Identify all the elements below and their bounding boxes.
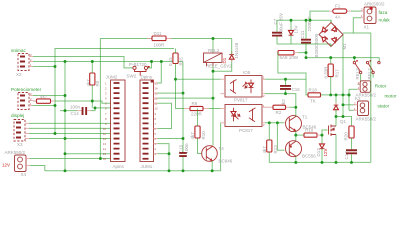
node rail R17 [329,56,332,59]
node R17 bottom [329,93,332,96]
node gate [321,134,324,137]
svg-text:R18: R18 [309,88,318,93]
wire T2 base feed [277,123,284,151]
svg-text:100n: 100n [184,143,189,154]
node R15 bottom [174,78,177,81]
header JUM1 Dpins [140,75,154,170]
svg-text:Apins: Apins [113,164,125,169]
svg-text:stator: stator [378,104,390,109]
node R5 bottom [91,100,94,103]
svg-text:JUM1: JUM1 [141,164,153,169]
wire pot pin1 [33,105,55,107]
node gnd jum2p15 [64,152,67,155]
transistor T1 BC546 [286,115,317,132]
connector X4 12V [2,150,30,177]
wire riser x175.5 to R9 [176,79,185,108]
wire relay node down to T4 [212,71,214,145]
wire R4 out to header [55,101,111,103]
wire displej pin3 [29,127,111,129]
node rail C11 [305,56,308,59]
node 6A8 out [305,51,308,54]
svg-text:12: 12 [103,137,106,141]
resistor R4 4k7 [33,94,55,103]
wire snimac pin3 to node [33,57,133,68]
svg-text:16: 16 [103,157,106,161]
svg-text:R10: R10 [201,131,206,140]
relay contact K1a [353,58,362,80]
svg-text:PV817: PV817 [234,98,248,103]
svg-text:4k7: 4k7 [190,132,195,140]
header JUM2 pin numbers [103,82,107,162]
svg-text:C15: C15 [179,144,184,153]
node gnd bus [64,169,67,172]
bridge rectifier B2 B250C5000 [314,23,347,58]
switch SW2 P-B1720 [127,62,150,79]
wire rotor p1 [349,88,358,90]
capacitor C11 [300,16,312,44]
node pin13 row [182,92,185,95]
node snimac1 [54,65,57,68]
svg-text:T1: T1 [302,115,308,120]
wire X4 pin1 to GND bus [30,166,45,171]
svg-text:4A: 4A [335,15,341,20]
resistor R18 [308,88,321,104]
wire gate to mosfet [322,130,328,135]
svg-text:D11: D11 [154,31,162,36]
wire D11 to relay node [171,38,232,40]
wire pot pin3 [33,95,65,97]
node gnd displej [64,137,67,140]
svg-text:BC556: BC556 [302,154,316,159]
wire emitters to R19 [296,134,304,136]
capacitor C17 snubber [344,149,357,162]
node diode top [335,93,338,96]
wire bridge AC right [343,32,353,34]
svg-text:C17: C17 [344,151,349,160]
svg-text:X1: X1 [364,25,370,30]
node R2 out [294,106,297,109]
wire bridge top stub [330,20,332,22]
wire bridge bottom [330,44,332,47]
resistor R16 6A8 10W [278,51,299,61]
svg-text:F1: F1 [335,4,341,9]
svg-text:SW2: SW2 [127,74,137,79]
node rail K1a [353,56,356,59]
wire opto feed y79 [176,78,221,80]
wire jum2 pin15 [65,153,111,155]
svg-text:13V: 13V [294,25,299,33]
node x349 row94.9 [348,93,351,96]
svg-text:4k7: 4k7 [40,94,48,99]
svg-text:BC846: BC846 [219,159,233,164]
svg-text:PC817: PC817 [239,128,253,133]
diode D1 1N4148 [222,39,239,64]
connector X? Potenciometer [11,87,42,110]
svg-text:REL2: REL2 [208,48,220,53]
node bus snubber [350,161,353,164]
wire R18 out row94.9 [321,94,350,96]
svg-text:220R: 220R [191,112,203,117]
node fuse drop [309,19,312,22]
svg-text:displej: displej [11,113,24,118]
wire X4 pin2 to JUM2 pin16 [30,158,111,160]
header JUM2 Apins [106,75,126,170]
wire JUM1 p13 riser [154,92,158,94]
node pot3 [64,94,67,97]
wire JUM1 p12 [154,97,158,99]
node C16 bottom [284,92,287,95]
wire node to relay coil [212,39,214,54]
wire C11 node to rail [305,44,307,58]
node sw2 [150,60,153,63]
wire PC817 pin2 to T1 base [265,122,285,124]
node p15 branch [160,60,163,63]
wire 6A8 left drop [278,53,308,95]
wire branch to JUM1 p15 [158,62,162,84]
svg-text:TK: TK [310,99,316,104]
svg-text:X4: X4 [21,172,27,177]
wire JUM1 p3 to bus riser [154,143,158,145]
node 277 [276,121,279,124]
wire opto out y79 to supply riser [265,78,306,80]
node drain [335,115,338,118]
diode D7 freewheel [334,95,339,117]
wire displej pin2 [29,133,111,135]
svg-text:Potenciometer: Potenciometer [11,87,42,92]
resistor R17 0.33R [324,58,340,95]
node bridge drop [342,93,345,96]
node x343 y116.5 [342,115,345,118]
node bus T2 [294,161,297,164]
svg-text:Rotor: Rotor [375,84,387,89]
svg-text:snimac: snimac [11,48,27,53]
relay REL2 [204,48,233,69]
svg-text:motor: motor [385,94,397,99]
svg-text:ARK550/2: ARK550/2 [356,117,377,122]
node bus C15 [182,169,185,172]
wire vertical x65 GND [64,62,66,171]
svg-text:faza: faza [379,10,388,15]
fuse F1 4A [329,4,351,20]
wire JUM1 p1 [154,153,158,155]
node T4 collector feed [212,97,215,100]
wire K1a to rotor p2 [358,74,361,85]
svg-text:R19: R19 [305,128,314,133]
svg-text:JUM2: JUM2 [106,75,118,80]
wire 6A8 right lead to C11 node [298,52,306,54]
wire opto IO5 pin2 out [265,94,296,108]
svg-text:K2: K2 [355,96,361,101]
wire JUM1 p11 jumper to p6 [154,103,158,128]
svg-text:C11: C11 [300,30,305,38]
node C14 right [94,106,97,109]
node bus 169 [168,169,171,172]
resistor R19 100R [304,128,320,138]
svg-text:ARK500/2: ARK500/2 [364,2,385,7]
svg-text:1N4148: 1N4148 [234,42,239,58]
svg-text:X3: X3 [17,142,23,147]
capacitor C7 1000uF [272,13,284,44]
svg-text:13: 13 [103,142,106,146]
svg-text:P-B1720: P-B1720 [129,62,147,67]
svg-text:nulak: nulak [379,18,391,23]
wire mosfet drain [335,117,337,127]
resistor R2 2k2 [265,99,290,115]
wire snubber row y116.5 [336,117,352,127]
svg-text:T4: T4 [219,146,225,151]
resistor R20 snubber [344,126,355,149]
wire pot pin2 to R4 [33,100,36,102]
node zener top [290,19,293,22]
svg-text:X2: X2 [16,72,22,77]
svg-text:0.15: 0.15 [168,57,173,66]
wire GND bus A [45,123,221,171]
node displej2 [54,132,57,135]
node bridge drop stator [342,103,345,106]
node C15 top [182,137,185,140]
connector X3 stator [354,101,390,122]
wire R19 to gate node [320,134,322,136]
node 169-153 [168,152,171,155]
wire fuse drop [310,11,329,20]
svg-text:Dpins: Dpins [141,75,153,80]
resistor R13 4k7 vertical [262,123,278,163]
header JUM1 pin numbers [155,82,158,157]
zener D13 12V [316,135,328,162]
svg-text:R15: R15 [179,57,184,66]
svg-text:14: 14 [103,147,106,151]
capacitor C15 100n [179,143,190,171]
node relay top [212,37,215,40]
wire snimac pin1 [33,66,55,68]
wire R2 to node [290,106,296,108]
connector X2 Rotor [356,81,387,98]
svg-text:IO5: IO5 [243,70,251,75]
svg-text:10: 10 [155,107,158,111]
connector X? snimac [11,48,33,77]
node 12v [99,157,102,160]
wire relay coil- to D1 [213,59,232,71]
node bus mosfet [335,161,338,164]
wire rotor p1 riser x349 [348,89,350,110]
resistor R5 4k7 pullup [86,62,100,108]
svg-text:15: 15 [103,152,106,156]
svg-text:M1: M1 [342,43,347,50]
pin JUM1 p15 [154,82,158,84]
transistor T2 BC556 [286,141,317,159]
wire SW2 right to net [148,62,152,68]
svg-text:14: 14 [155,87,158,91]
svg-text:12V: 12V [323,148,328,156]
node bus T4 [211,169,214,172]
svg-text:C14: C14 [71,111,80,116]
svg-text:R9: R9 [192,101,198,106]
wire GND bus B [269,161,371,163]
wire rail 57.6 [306,57,379,59]
svg-text:ARK550/2: ARK550/2 [5,150,26,155]
resistor R10 4k7 vertical [190,109,206,154]
wire vertical x55 with top rail [55,49,174,134]
connector X? displej [11,113,29,147]
diode D11 100R [147,31,171,48]
opto-coupler IO5 PV817 [221,70,266,103]
wire stator p2 from bridge drop [343,104,354,106]
node coil- [212,70,215,73]
wire mosfet source [335,135,337,163]
wire displej pin1 [29,138,111,140]
svg-text:100R: 100R [154,43,166,48]
node R5 top [91,60,94,63]
svg-text:1000uF 35V: 1000uF 35V [279,13,284,38]
node 269 [268,121,271,124]
wire T1 collector riser [295,107,297,116]
svg-text:C16: C16 [292,87,301,92]
node C11 top [305,19,308,22]
svg-text:12V: 12V [2,163,10,168]
wire T2 collector to bus [295,156,297,162]
svg-text:Q1: Q1 [340,119,347,124]
mosfet Q1 [329,119,347,136]
node pot1 [54,104,57,107]
svg-text:6A8 10W: 6A8 10W [280,55,299,60]
node bus zener [321,161,324,164]
transistor T4 BC846 [202,146,233,164]
svg-text:D1: D1 [222,57,227,63]
wire bridge drop x343 [342,35,344,117]
wire displej pin4 [29,122,111,124]
node C14 left [64,109,67,112]
wire 12v riser x100 [100,39,152,159]
svg-text:RELE_G5V2: RELE_G5V2 [206,64,232,69]
wire T2 emitter up [295,135,297,141]
node emitters [294,134,297,137]
relay contact K1b [366,58,380,80]
wire bottom cap rail y44 [277,43,331,45]
svg-text:R20: R20 [344,132,349,141]
wire R9 to opto [209,108,221,110]
connector X1 ARK500/2 [361,2,390,30]
wire top rail y20.2 [277,20,331,22]
opto-coupler IO? PC817 [221,104,266,133]
wire JUM1 p4 to C15 [154,138,158,140]
header JUM2 pads [114,82,120,160]
wire T1 emitter to node [295,131,297,135]
wire K1b stub [372,74,374,78]
svg-text:100n: 100n [70,105,81,110]
wire T4 emitter to bus [211,161,213,171]
node snimac2 [64,60,67,63]
svg-text:R17: R17 [335,69,340,78]
wire stator p1 [349,109,354,111]
zener D12 [289,20,299,44]
node C16 top [284,78,287,81]
header JUM1 pads [143,82,149,160]
resistor R9 220R [184,101,209,117]
wire fuse to X1 [351,10,361,12]
svg-text:R2: R2 [276,110,282,115]
svg-text:10: 10 [103,127,106,131]
resistor R15 vertical [168,49,184,80]
node rotor drop [348,93,351,96]
svg-text:R5: R5 [95,80,100,86]
wire nulak drop to bus B [353,18,371,163]
svg-text:B250C5000: B250C5000 [314,33,319,57]
wire drop x182.9 [182,62,184,94]
capacitor C16 [280,79,300,93]
capacitor C14 100n [60,105,111,116]
wire snimac pin2 bus [33,61,183,63]
